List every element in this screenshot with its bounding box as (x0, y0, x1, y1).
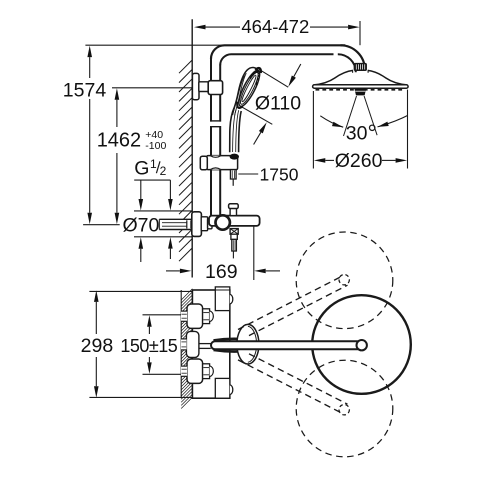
svg-text:298: 298 (81, 335, 114, 357)
svg-text:-100: -100 (145, 140, 166, 152)
svg-text:169: 169 (205, 261, 238, 283)
svg-text:150±15: 150±15 (120, 336, 177, 356)
svg-text:G: G (134, 158, 149, 180)
svg-text:1462: 1462 (97, 129, 142, 151)
svg-text:Ø260: Ø260 (335, 150, 383, 172)
svg-text:1574: 1574 (63, 80, 107, 102)
svg-text:464-472: 464-472 (241, 16, 309, 37)
svg-text:2: 2 (160, 164, 167, 178)
svg-text:Ø70: Ø70 (122, 214, 159, 236)
svg-text:30: 30 (346, 123, 368, 145)
svg-text:1: 1 (150, 157, 157, 171)
svg-text:Ø110: Ø110 (255, 93, 301, 115)
svg-text:1750: 1750 (260, 165, 299, 185)
